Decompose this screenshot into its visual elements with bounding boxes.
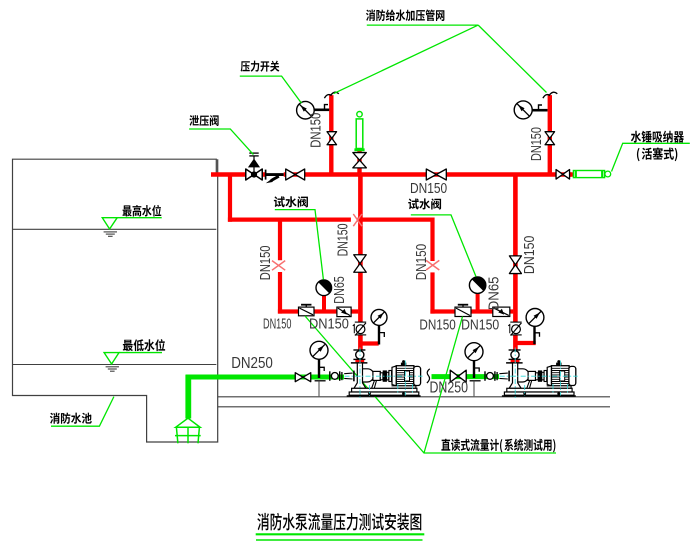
right riser gauge [514,101,532,119]
right pump discharge pipe [513,175,518,350]
right riser valve [545,132,555,145]
leader tank label [51,397,114,427]
svg-text:DN150: DN150 [419,317,455,334]
pump unit P1 [330,348,423,399]
ground line lower [218,406,610,408]
left test branch drop [278,218,282,261]
left meter outlet valve [337,307,351,317]
suction riser pipe [185,375,191,419]
low level symbol [104,353,119,364]
leader test valve left [275,210,324,280]
right suction gauge [465,343,483,361]
left riser gauge [297,101,315,119]
right suction gauge stem [473,361,475,378]
label absorber line2 [637,147,677,161]
suction header pipe [186,375,344,380]
left suction valve [295,373,311,382]
left suction gauge stem [318,359,320,378]
suction pipe right pump [432,374,500,379]
right riser pipe [548,95,552,174]
right discharge valve [509,256,521,274]
crossing mark right branch [426,260,439,270]
right flow meter [455,307,471,316]
svg-text:DN150: DN150 [334,224,351,257]
right riser gauge tap [532,109,548,112]
water hammer absorber [573,171,610,178]
air vent isolation valve [353,153,367,168]
right discharge gauge stem [533,326,535,344]
label test valve left [274,196,308,207]
right test header [430,309,513,313]
leader test valve right [411,215,476,277]
left riser break [324,92,338,98]
label pressure switch [241,61,280,72]
svg-text:DN150: DN150 [461,317,499,334]
absorber isolation valve [556,170,570,180]
svg-text:DN150: DN150 [410,180,447,197]
left riser gauge tap [314,109,329,112]
svg-text:DN150: DN150 [263,317,291,333]
label tank [50,413,92,424]
tank-side drop pipe [228,173,232,222]
relief valve body [246,169,263,180]
svg-text:DN150: DN150 [258,246,274,281]
right test valve [469,277,485,293]
tank high water line [13,228,217,230]
left discharge valve [354,255,367,273]
left discharge gauge stem [378,325,380,344]
svg-text:DN65: DN65 [486,277,503,311]
label high water level [123,205,162,217]
leader absorber [612,143,690,171]
pipe break mark [427,369,430,383]
left test valve [316,280,332,296]
label absorber line1 [631,131,684,143]
fire water tank outline [13,159,218,442]
relief valve ball [251,171,257,177]
label relief valve [189,115,218,126]
leader supply network [334,25,547,94]
gate valve main left [286,169,305,180]
left suction gauge [310,341,328,359]
tank low water line [13,364,217,366]
label flow meter note [441,439,555,453]
main header pipe [211,172,572,177]
left pump discharge pipe [358,175,363,351]
label test valve right [408,198,441,209]
leader relief valve [189,129,253,155]
svg-text:DN150: DN150 [307,113,324,148]
pump unit P2 [485,348,578,399]
svg-text:DN150: DN150 [528,127,545,161]
right riser break [543,92,557,98]
left discharge gauge [371,309,387,325]
left flow meter [299,307,315,316]
relief valve actuator [249,159,260,167]
left riser valve [327,132,337,145]
left gauge branch elbow [360,341,378,345]
ground line upper [218,396,610,398]
right meter outlet valve [493,307,510,316]
secondary header pipe [228,218,351,222]
left orifice fitting [355,322,367,334]
svg-text:DN150: DN150 [413,244,430,281]
leader flow meters [305,316,556,453]
absorber stub pipe [569,172,573,176]
right discharge gauge [526,309,544,327]
left test header [278,309,358,313]
right orifice fitting [510,322,522,334]
check valve [266,171,284,178]
left test valve stub [322,295,326,312]
leader pressure switch [240,76,302,103]
svg-text:DN250: DN250 [430,379,469,396]
air vent stub pipe [357,151,361,175]
crossing mark secondary header [353,214,362,226]
title underline [256,533,425,535]
svg-text:DN65: DN65 [331,276,348,304]
left riser pipe [329,95,333,174]
low level ticks [106,367,119,371]
label low water level [123,339,165,351]
gate valve main right [426,169,446,180]
title text [257,513,421,531]
svg-text:DN250: DN250 [231,355,273,372]
right test valve stub [476,293,480,312]
right suction valve [450,370,466,382]
label supply network [366,9,444,21]
foot valve strainer [175,418,201,443]
svg-text:DN150: DN150 [521,236,538,275]
svg-text:DN150: DN150 [309,316,349,333]
crossing mark left branch [272,261,285,271]
high level ticks [104,232,117,236]
right gauge branch elbow [515,341,535,345]
auto air vent [354,112,364,150]
high level symbol [102,218,117,229]
right test branch drop [430,218,434,262]
